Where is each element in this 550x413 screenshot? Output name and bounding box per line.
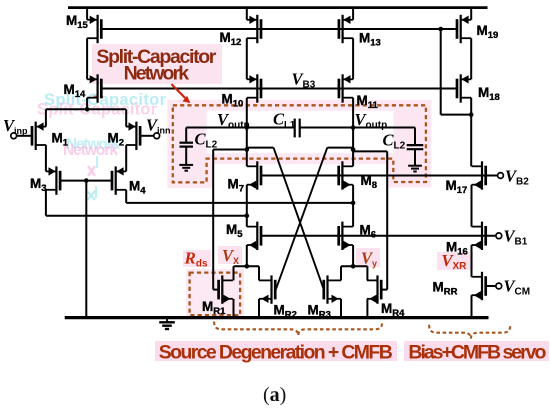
label M18 <box>478 85 500 103</box>
title network <box>124 63 190 85</box>
transistor M11 <box>339 74 353 102</box>
wire M1 drain to M3 <box>45 145 47 171</box>
wire Voutn tap to diagonal <box>247 147 274 149</box>
VSS rail <box>65 316 489 319</box>
transistor M15 <box>87 15 101 43</box>
node Voutp at gate taps <box>351 147 356 152</box>
svg-text:Bias+CMFB servo: Bias+CMFB servo <box>408 342 546 364</box>
label VX <box>222 246 239 266</box>
wire Voutn to CL1 <box>247 127 294 129</box>
label M14 <box>64 82 87 100</box>
label VY <box>361 249 377 269</box>
pink highlight behind VY label <box>356 248 380 267</box>
title split-capacitor <box>96 46 216 68</box>
wire gate line to VSS <box>85 181 87 317</box>
svg-text:Network: Network <box>124 63 190 85</box>
label VB2 <box>505 167 529 188</box>
transistor MR1 <box>219 275 233 303</box>
label MR4 <box>381 301 405 319</box>
node M4-M6 junction <box>351 201 356 206</box>
node M3-M5 junction <box>245 214 250 219</box>
capacitor CL2 right <box>407 128 424 166</box>
wire M2 source down <box>125 109 127 126</box>
transistor M6 <box>339 222 353 250</box>
wire M13 source to rail <box>352 8 354 20</box>
node Voutp at CL1 line <box>351 125 356 130</box>
ground below CL2 left <box>179 165 193 171</box>
bias servo brace <box>429 325 510 339</box>
wire VY to MR4 drain <box>366 266 368 280</box>
svg-text:Source Degeneration + CMFB: Source Degeneration + CMFB <box>159 342 393 364</box>
annotation arrow <box>171 84 190 103</box>
wire M15 drain to M14 source <box>86 38 88 79</box>
pink highlight behind split-capacitor network box <box>173 105 426 182</box>
transistor MR3 <box>324 275 341 303</box>
capacitor CL1 <box>295 119 300 138</box>
ground below CL2 right <box>408 166 422 172</box>
split-capacitor network dashed box <box>173 105 426 182</box>
transistor MR4 <box>367 275 381 303</box>
label M10 <box>222 92 244 110</box>
wire M3 M4 gate line <box>60 180 112 182</box>
wire VY to MR3 drain <box>340 266 342 280</box>
node VY <box>351 264 356 269</box>
label M6 <box>360 223 377 241</box>
wire M11 drain to Voutp node <box>352 98 354 167</box>
pink highlight behind Rds box <box>186 269 244 318</box>
label Voutp <box>355 110 388 131</box>
transistor M13 <box>339 15 353 43</box>
transistor M5 <box>247 222 261 250</box>
label MR1 <box>202 299 226 317</box>
node M18 drain junction <box>469 112 474 117</box>
wire M19 source to rail <box>470 8 472 20</box>
wire VX to MR2 drain <box>258 266 260 280</box>
ghost text split-capacitor cyan <box>44 91 167 109</box>
wire M8 source to M6 drain <box>352 185 354 227</box>
wire M12 source to rail <box>246 8 248 20</box>
transistor M4 <box>112 166 126 194</box>
pink highlight behind source-degeneration text <box>155 341 397 361</box>
label M7 <box>228 177 245 195</box>
wire cascode gate line2 VB3 <box>101 88 458 90</box>
label M13 <box>359 31 381 49</box>
node VX <box>245 264 250 269</box>
wire bias jog horizontal <box>441 114 472 116</box>
label M11 <box>357 93 379 111</box>
transistor M12 <box>247 15 261 43</box>
wire VX to MR1 drain <box>233 266 235 280</box>
node Voutn at gate taps <box>245 147 250 152</box>
wire VY line <box>341 265 367 267</box>
pink highlight behind VX label <box>218 246 242 264</box>
wire CL1 to Voutp <box>300 127 353 129</box>
transistor MR2 <box>259 275 275 303</box>
label MR2 <box>274 303 297 321</box>
wire M12 drain to M10 source <box>246 38 248 79</box>
label Voutn <box>217 110 250 131</box>
label MRR <box>433 280 458 298</box>
ghost arrow marks cyan <box>87 156 97 200</box>
wire M5 source to VX <box>246 245 248 266</box>
wire Voutp tap to diagonal <box>327 147 353 149</box>
text bias cmfb servo <box>408 342 546 364</box>
label Vinp <box>3 116 28 136</box>
label M5 <box>226 222 243 240</box>
wire M4 drain line to M6 node <box>126 202 353 204</box>
ground symbol main <box>159 318 175 329</box>
label Vinn <box>146 116 171 136</box>
wire MR2 source to VSS <box>258 299 260 317</box>
wire VX line <box>234 265 260 267</box>
transistor M7 <box>247 161 261 189</box>
wire VCM MRR gate <box>486 285 496 287</box>
pink highlight behind title text <box>92 44 222 84</box>
label M12 <box>220 30 242 48</box>
wire M15 source to rail <box>86 8 88 20</box>
ghost text split-capacitor pink <box>37 101 158 119</box>
transistor MRR <box>472 272 486 300</box>
capacitor CL2 left <box>180 128 194 165</box>
wire diagonal Voutp to MR2 gate <box>276 148 328 290</box>
terminal VB2 <box>498 173 504 179</box>
wire M6 source to VY <box>352 245 354 266</box>
Rds dashed box <box>190 273 241 316</box>
wire MR3 source to VSS <box>340 299 342 317</box>
transistor M1 <box>32 122 46 150</box>
wire diagonal Voutn to MR3 gate <box>274 148 324 290</box>
wire M1 source up <box>45 109 47 126</box>
transistor M19 <box>457 15 471 43</box>
wire Voutp tap to MR4 gate <box>353 151 387 289</box>
label VXR <box>442 251 468 272</box>
wire M17 source to M16 drain <box>471 185 473 227</box>
ghost text network cyan <box>66 136 120 153</box>
text source degeneration cmfb <box>159 342 393 364</box>
wire M7 source to M5 drain <box>246 185 248 227</box>
transistor M10 <box>247 74 261 102</box>
label M17 <box>446 178 468 196</box>
node tail junction <box>85 107 90 112</box>
wire VB2 line M7 M8 M17 gates <box>261 175 498 177</box>
label Rds <box>184 249 208 270</box>
wire MRR source to VSS <box>471 295 473 316</box>
VDD rail <box>68 6 488 9</box>
transistor M14 <box>87 74 101 102</box>
wire VB1 line M5 M6 M16 gates <box>261 235 496 237</box>
terminal VB1 <box>496 233 502 239</box>
label CL2 right <box>383 131 406 152</box>
caption (a) <box>263 384 286 406</box>
terminal VCM <box>496 283 502 289</box>
label M19 <box>477 23 499 41</box>
node bias line1 junction <box>438 27 443 32</box>
wire M18 drain down <box>470 98 472 115</box>
source degeneration brace <box>214 322 382 336</box>
transistor M18 <box>457 74 471 102</box>
svg-text:(a): (a) <box>263 384 286 406</box>
label CL2 left <box>195 130 218 151</box>
transistor M17 <box>472 161 486 189</box>
transistor M3 <box>46 166 60 194</box>
wire M13 drain to M11 source <box>352 38 354 79</box>
pink highlight behind Rds label <box>183 250 211 267</box>
wire M16 source to MRR drain VXR <box>471 245 473 277</box>
wire tail line <box>46 108 126 110</box>
terminal Vinn <box>140 133 159 139</box>
label M1 <box>52 131 69 149</box>
transistor M2 <box>126 122 140 150</box>
ghost arrow marks pink <box>88 166 95 176</box>
wire M18 drain to M17 drain <box>470 115 472 167</box>
wire M4 drain down <box>125 190 127 203</box>
label M8 <box>361 173 378 191</box>
wire M19 drain to M18 source <box>470 38 472 79</box>
wire Voutn tap to MR1 gate <box>213 150 247 290</box>
label M3 <box>30 176 47 194</box>
label VCM <box>504 277 531 298</box>
label M16 <box>446 240 468 258</box>
label M15 <box>66 13 89 31</box>
label M4 <box>129 179 146 197</box>
pink highlight behind bias-servo text <box>404 341 549 361</box>
wire M10 drain to Voutn node <box>246 98 248 167</box>
wire bias vertical <box>440 29 442 115</box>
node M3-M4 gate junction <box>84 178 89 183</box>
ghost text network pink <box>63 142 118 159</box>
transistor M16 <box>472 222 486 250</box>
wire M2 drain to M4 <box>125 145 127 171</box>
wire Voutp to CL2 right <box>353 127 415 129</box>
transistor M8 <box>339 161 353 189</box>
label VB1 <box>504 227 528 248</box>
red artifact under M14 <box>94 96 104 98</box>
wire Voutn to CL2 left <box>186 127 247 129</box>
wire cascode gate line1 <box>101 28 458 30</box>
wire M14 drain to tail <box>86 98 88 110</box>
wire MR1 source to VSS <box>233 299 235 317</box>
label MR3 <box>308 303 331 321</box>
node Voutn at CL1 line <box>245 125 250 130</box>
wire M3 drain down <box>45 190 47 216</box>
terminal Vinp <box>11 133 32 139</box>
wire M3 drain line to M5 node <box>46 215 247 217</box>
label CL1 <box>273 110 296 131</box>
label M2 <box>108 131 125 149</box>
label VB3 <box>292 70 316 91</box>
pink highlight behind VXR label <box>437 252 473 270</box>
wire MR4 source to VSS <box>366 299 368 317</box>
